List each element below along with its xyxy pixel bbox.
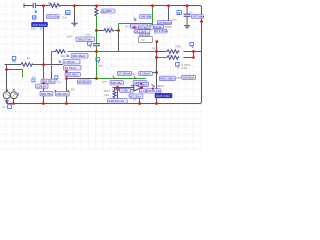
wire bus y79 green bbox=[97, 78, 147, 80]
svg-text:230.42m: 230.42m bbox=[47, 15, 59, 19]
probe arrow x118 cap bbox=[119, 88, 121, 90]
svg-text:M41.166m: M41.166m bbox=[160, 77, 175, 81]
box 44.88u bbox=[139, 26, 154, 30]
value box 300.42m bbox=[65, 73, 81, 77]
probe arrows left cluster bbox=[67, 54, 69, 56]
box 12.1m bbox=[140, 33, 150, 37]
tiny icon x32.5 bbox=[32, 79, 35, 82]
svg-text:17.18mA: 17.18mA bbox=[118, 72, 131, 76]
terminal input left bbox=[23, 3, 25, 8]
wire bottom rail bbox=[7, 102, 202, 104]
svg-text:V1: V1 bbox=[2, 105, 6, 109]
svg-text:1.09u: 1.09u bbox=[121, 89, 129, 93]
svg-text:50: 50 bbox=[142, 38, 146, 42]
value box 2.196V bbox=[102, 9, 116, 13]
svg-text:4.19mV: 4.19mV bbox=[140, 72, 152, 76]
svg-text:0m: 0m bbox=[172, 18, 177, 22]
svg-text:1k: 1k bbox=[169, 53, 173, 57]
wire vertical x43.5 full bbox=[43, 6, 45, 104]
wire R1 row y64.3 bbox=[4, 64, 63, 66]
tick y79.8 bbox=[49, 79, 54, 81]
value box 546.48u bbox=[110, 81, 123, 85]
wire green vertical x51.3 bbox=[51, 52, 53, 72]
svg-text:R08: R08 bbox=[175, 44, 181, 48]
wire dark x118.4 down to row bbox=[118, 31, 120, 52]
svg-text:197.98m: 197.98m bbox=[192, 15, 204, 19]
svg-text:164.9uA: 164.9uA bbox=[183, 75, 195, 79]
probe arrow x134 on OUT bbox=[134, 18, 136, 21]
wire stub x168.4 bbox=[168, 6, 170, 21]
meter icon M x66.5 bbox=[66, 11, 70, 15]
svg-text:10p: 10p bbox=[98, 64, 103, 68]
wire row y57.2 dark bbox=[184, 52, 194, 58]
svg-text:2k7: 2k7 bbox=[67, 35, 72, 39]
source V1 circle 1 bbox=[3, 92, 10, 99]
value box Gain bbox=[139, 82, 149, 86]
wire dark x51.3 lower bbox=[51, 71, 53, 79]
value box 1.09u bbox=[120, 89, 131, 93]
wire green vertical x96.8 bbox=[96, 16, 98, 79]
value box 230.42m bbox=[47, 15, 60, 19]
svg-text:C10: C10 bbox=[181, 66, 187, 70]
resistor R5 series on top rail bbox=[50, 4, 61, 8]
wire green row y57.2 bbox=[157, 57, 167, 59]
svg-text:346.46uA: 346.46uA bbox=[72, 54, 86, 58]
svg-text:2M0C: 2M0C bbox=[156, 84, 165, 88]
wire op-amp out vertical x156.8 full bbox=[156, 42, 158, 104]
value box 164.9u b bbox=[182, 75, 196, 79]
meter icon M x177.5 bbox=[177, 11, 181, 15]
value box 4.19mV bbox=[139, 71, 153, 75]
svg-text:+Vs: +Vs bbox=[85, 33, 91, 37]
wire right vertical bbox=[201, 8, 203, 102]
value box M272.16u bbox=[147, 89, 162, 93]
svg-text:C9: C9 bbox=[102, 80, 106, 84]
svg-text:200.16u: 200.16u bbox=[56, 92, 67, 96]
opamp U2 box MT8254U bbox=[158, 21, 172, 25]
opamp body white box 50 bbox=[139, 36, 153, 42]
value box 1.243V bbox=[36, 84, 49, 88]
wire stub x139.3 to rail bbox=[139, 98, 141, 103]
svg-text:DI0C: DI0C bbox=[165, 25, 173, 29]
probe arrows on green bus red tips bbox=[113, 76, 115, 79]
probe icon x54.8 bbox=[55, 76, 58, 81]
resistor R04 vertical x114 bbox=[114, 88, 116, 99]
probe icon x96.5 bbox=[96, 58, 100, 63]
svg-text:2.4: 2.4 bbox=[140, 89, 145, 93]
capacitor C5 on green vertical bbox=[93, 44, 100, 46]
svg-text:2+: 2+ bbox=[40, 27, 44, 31]
probe icon x190.8 bbox=[190, 42, 194, 47]
value box 346.46u rail bbox=[108, 99, 128, 104]
value box M41.16m bbox=[159, 76, 175, 80]
capacitor C2 series on top rail bbox=[33, 3, 35, 8]
svg-text:1k0: 1k0 bbox=[104, 93, 109, 97]
ground stubs under source bbox=[7, 99, 14, 104]
probe icon square x33 bbox=[33, 16, 36, 19]
svg-text:346.46u 24: 346.46u 24 bbox=[109, 99, 125, 103]
probe icon +Vs x88.5 bbox=[88, 42, 92, 47]
wire green stub x22.8 bbox=[22, 70, 24, 78]
svg-text:10u: 10u bbox=[129, 90, 134, 94]
capacitor C6 vertical x117 bbox=[117, 88, 119, 99]
value box 346.46u b bbox=[133, 81, 147, 85]
value box 164.96u bbox=[140, 15, 152, 19]
svg-text:30.72uV: 30.72uV bbox=[65, 66, 77, 70]
svg-text:0m: 0m bbox=[63, 15, 68, 19]
wire horiz y30.1 to R7 bbox=[97, 30, 119, 32]
wire vertical x66.1 bbox=[66, 71, 68, 103]
svg-text:1.243V: 1.243V bbox=[36, 84, 47, 88]
svg-text:R1: R1 bbox=[12, 60, 16, 64]
wire branch y69.2 bbox=[7, 69, 23, 71]
svg-text:1.76mA: 1.76mA bbox=[64, 60, 76, 64]
value box M1.32m bbox=[129, 94, 143, 98]
resistor R4 horizontal y51.6 bbox=[56, 50, 66, 54]
small box +Vs bbox=[85, 37, 89, 40]
resistor R1 bbox=[21, 63, 33, 67]
wire bus y79 dark bbox=[67, 78, 97, 80]
wire row y51.6 dark right bbox=[157, 51, 202, 53]
svg-text:AUX 2.4m: AUX 2.4m bbox=[156, 94, 171, 98]
wire y87.2 to op-amp bbox=[113, 87, 134, 89]
svg-text:306.78u: 306.78u bbox=[41, 92, 52, 96]
probe arrow x156 AUX bbox=[156, 90, 158, 92]
probe icon V above R1 bbox=[12, 56, 16, 61]
box 1/3(c) bbox=[150, 25, 164, 29]
svg-text:1k: 1k bbox=[27, 56, 31, 60]
value box 17.18m bbox=[117, 71, 131, 75]
svg-text:4.7k: 4.7k bbox=[55, 81, 61, 85]
resistor R08 bbox=[167, 50, 179, 54]
svg-text:560k: 560k bbox=[100, 10, 107, 14]
wire row y51.6 green long bbox=[52, 51, 157, 53]
svg-text:47.82uA: 47.82uA bbox=[78, 80, 90, 84]
wire stub x152.6 op-amp bbox=[152, 25, 154, 26]
svg-text:786.37mV: 786.37mV bbox=[77, 38, 92, 42]
svg-text:2n: 2n bbox=[189, 10, 193, 14]
resistor R7 horizontal bbox=[104, 29, 114, 33]
value box selected 126.42m bbox=[32, 22, 48, 26]
svg-text:164.96u: 164.96u bbox=[140, 15, 151, 19]
value box 30.72u bbox=[64, 66, 82, 70]
V1 label icon bbox=[2, 105, 12, 109]
ground G3 cap top right x187 bbox=[186, 6, 188, 26]
wire top rail bbox=[24, 6, 202, 8]
value box 346.46u bbox=[71, 54, 88, 58]
value box 2.4 bbox=[140, 89, 147, 93]
value box 166.16u bbox=[131, 24, 148, 28]
value box selected AUX bbox=[155, 93, 172, 98]
svg-text:OUT: OUT bbox=[125, 24, 132, 28]
op-amp U3 triangle bbox=[134, 84, 142, 91]
svg-text:1k: 1k bbox=[133, 98, 137, 102]
junction dots bbox=[42, 4, 45, 7]
value box 197.98m bbox=[192, 15, 205, 19]
svg-text:PM: PM bbox=[176, 76, 181, 80]
capacitor C8 bbox=[184, 14, 191, 16]
wire green OUT net bbox=[119, 6, 153, 31]
svg-text:546.48u: 546.48u bbox=[111, 81, 122, 85]
svg-text:1n: 1n bbox=[32, 75, 36, 79]
box 281.2u bbox=[134, 30, 150, 34]
wire green y72.9 bbox=[152, 72, 156, 74]
value box 47.82u bbox=[77, 80, 91, 84]
probe icon arrow at cap C2 bbox=[35, 10, 37, 13]
value box 200.16u bbox=[56, 91, 70, 96]
probe icon x176.5 bbox=[176, 63, 180, 68]
ground G2 top rail at x74 bbox=[74, 6, 76, 24]
resistor R09 bbox=[167, 56, 179, 60]
value box 786.37m bbox=[76, 37, 95, 42]
value box 306.78u bbox=[40, 91, 53, 96]
svg-text:2k: 2k bbox=[48, 1, 52, 5]
value box 700.78m bbox=[41, 79, 55, 84]
source V1 circle 2 bbox=[10, 92, 17, 99]
svg-text:M 1.5mA: M 1.5mA bbox=[155, 29, 168, 33]
svg-text:M: M bbox=[178, 11, 181, 15]
svg-text:300.42m: 300.42m bbox=[66, 73, 78, 77]
svg-text:R2: R2 bbox=[71, 87, 75, 91]
svg-text:M: M bbox=[66, 11, 69, 15]
svg-text:10n: 10n bbox=[31, 27, 36, 31]
svg-text:M272.16u: M272.16u bbox=[147, 89, 161, 93]
svg-text:4u: 4u bbox=[132, 72, 136, 76]
svg-text:10p: 10p bbox=[60, 54, 65, 58]
probe arrow x152 gain bbox=[152, 84, 154, 87]
svg-text:OUT: OUT bbox=[152, 47, 159, 51]
box M1.5m bbox=[155, 29, 169, 33]
svg-text:4.7k: 4.7k bbox=[106, 26, 112, 30]
value box 1.76mA bbox=[63, 60, 80, 64]
resistor R6 vertical at x96.8 bbox=[96, 6, 98, 9]
wire left vertical x6.6 bbox=[6, 65, 8, 92]
